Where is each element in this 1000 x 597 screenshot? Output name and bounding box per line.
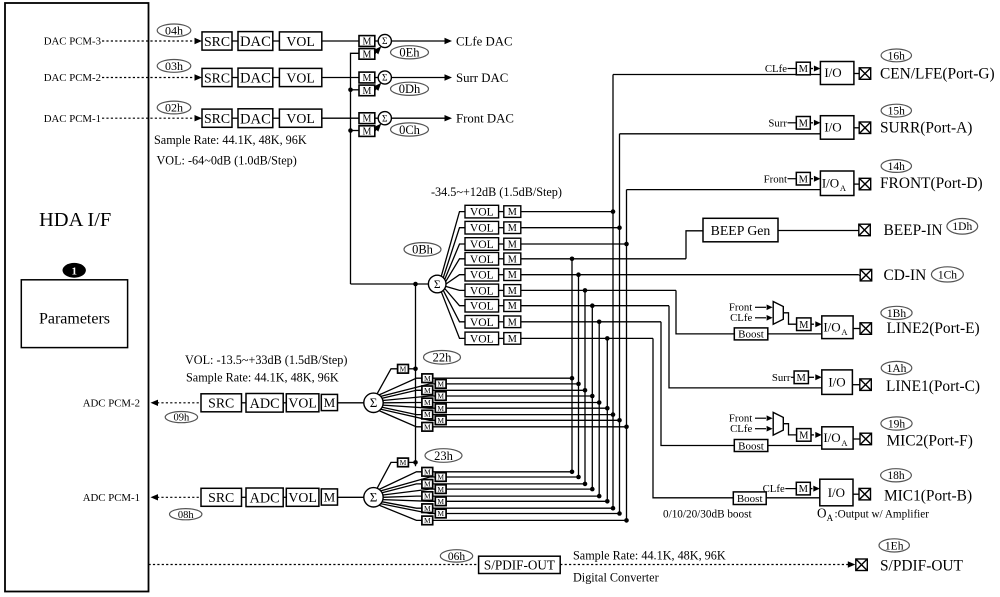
junction dot 22h row6 <box>605 406 610 411</box>
wire fan 23h B8 <box>381 504 436 514</box>
junction dot mixer0B row9 <box>605 336 610 341</box>
svg-text:M: M <box>508 301 517 312</box>
VOL box mixer0B-8 <box>465 316 499 329</box>
mixer input M 22h B4 <box>435 392 446 401</box>
svg-text:Front DAC: Front DAC <box>456 112 514 126</box>
wire 22h row9 to bus <box>433 426 627 428</box>
wire 0Bh bus vertical x415 <box>415 284 417 466</box>
mute M port CEN/LFE <box>796 62 810 75</box>
pin symbol BEEP-IN <box>859 224 871 236</box>
wire front arrow MIC2 <box>755 417 766 419</box>
mute M mixer0B-8 <box>504 316 521 328</box>
mute M upper row3 <box>359 36 375 47</box>
mixer input M 22h A3 <box>422 386 433 395</box>
wire top M to bus 22h <box>408 368 415 370</box>
wire front arrow LINE2 <box>755 306 766 308</box>
svg-text:VOL: VOL <box>470 253 494 266</box>
wire 0Bh output to sum line <box>351 283 430 285</box>
junction dot 23h row5 <box>597 494 602 499</box>
svg-text:M: M <box>424 422 431 431</box>
svg-text:ADC: ADC <box>250 490 280 506</box>
wire stub to lower M row5 <box>351 130 360 132</box>
wire fan top 22h <box>377 369 398 394</box>
svg-text:SRC: SRC <box>204 111 230 126</box>
mute M MIC1 <box>796 482 810 495</box>
svg-text:CEN/LFE(Port-G): CEN/LFE(Port-G) <box>880 66 995 83</box>
mute M mixer0B-4 <box>504 253 521 265</box>
wire VOL to mute row5 <box>322 117 359 119</box>
wire fan 23h A3 <box>382 484 422 493</box>
wire vertical bus Mic2 <box>598 322 600 496</box>
junction dot 22h row9 <box>624 425 629 430</box>
mute M lower row3 <box>359 49 375 60</box>
wire 22h row8 to bus <box>446 419 619 421</box>
svg-text:M: M <box>362 114 371 125</box>
wire dashed ADC PCM-1 arrow <box>151 494 159 500</box>
VOL box mixer0B-5 <box>465 268 499 281</box>
svg-text:16h: 16h <box>888 50 906 62</box>
pin symbol S/PDIF-OUT <box>856 559 868 571</box>
wire 22h row6 to bus <box>446 407 607 409</box>
svg-text:1Eh: 1Eh <box>885 540 904 552</box>
wire fan 22h B4 <box>383 396 435 401</box>
svg-text:M: M <box>437 380 444 389</box>
wire IO to pin SURR <box>854 127 859 129</box>
DAC box 5 <box>238 109 273 128</box>
svg-text:A: A <box>841 327 848 337</box>
pin symbol CD-IN <box>860 269 872 281</box>
wire top M to bus 23h <box>408 461 415 463</box>
node id oval 1Bh <box>881 306 912 319</box>
mixer input M 22h A1 <box>422 374 433 383</box>
svg-text:M: M <box>362 127 371 138</box>
wire 22h row1 to bus <box>433 377 572 379</box>
svg-text:M: M <box>424 467 431 476</box>
svg-text:Sample Rate: 44.1K, 48K, 96K: Sample Rate: 44.1K, 48K, 96K <box>186 371 339 385</box>
wire LINE2 boost feed corner <box>676 290 734 334</box>
svg-text:ADC PCM-2: ADC PCM-2 <box>83 397 140 409</box>
wire mux to M MIC2 <box>783 424 796 435</box>
svg-text:I/O: I/O <box>828 375 845 390</box>
junction dot mixer0B row2 <box>617 225 622 230</box>
svg-text:18h: 18h <box>887 470 905 482</box>
DAC box 3 <box>238 32 273 51</box>
svg-text:Surr: Surr <box>772 372 791 384</box>
wire VOL-M mixer0B-7 <box>499 305 504 307</box>
svg-text:M: M <box>437 416 444 425</box>
svg-text:BEEP Gen: BEEP Gen <box>711 223 771 238</box>
junction dot 23h row1 <box>570 470 575 475</box>
mute M port FRONT <box>796 172 810 185</box>
wire fan 22h B6 <box>383 405 435 408</box>
I O box MIC1 <box>820 479 853 506</box>
I O box FRONT <box>820 171 854 196</box>
mixer input M 23h A3 <box>422 480 433 489</box>
svg-text:SURR(Port-A): SURR(Port-A) <box>880 120 972 137</box>
wire fan 23h A7 <box>382 502 422 508</box>
junction dot 22h row1 <box>570 376 575 381</box>
wire M to sum 23h <box>338 496 364 498</box>
wire DAC-VOL row3 <box>273 40 280 42</box>
wire fan 23h A9 <box>379 505 422 520</box>
wire fan 0Bh input 8 <box>443 290 465 321</box>
wire MIC1 boost feed corner <box>653 338 733 497</box>
node id oval 23h <box>425 449 462 463</box>
svg-text:VOL: VOL <box>470 238 494 251</box>
wire mixer-out vertical x350 <box>351 53 360 284</box>
svg-text:O: O <box>817 506 827 521</box>
wire M to IO FRONT <box>810 178 813 180</box>
numbered marker 1 <box>62 263 85 278</box>
svg-text:BEEP-IN: BEEP-IN <box>884 222 943 239</box>
wire stub to lower M row4 <box>351 89 360 91</box>
junction dot 0Bh bus <box>413 282 418 287</box>
wire fan 23h B2 <box>381 477 436 491</box>
SRC box 22h <box>201 394 242 412</box>
svg-text:03h: 03h <box>165 59 183 73</box>
wire M to sum 22h <box>338 402 364 404</box>
DAC box 4 <box>238 68 273 87</box>
junction dot 23h row9 <box>624 518 629 523</box>
VOL box mixer0B-2 <box>465 221 499 234</box>
wire 22h row2 to bus <box>446 383 578 385</box>
mute M upper row4 <box>359 72 375 83</box>
junction dot mixer0B row3 <box>624 242 629 247</box>
wire VOL-M mixer0B-8 <box>499 321 504 323</box>
wire VOL-M mixer0B-2 <box>499 227 504 229</box>
svg-text:M: M <box>799 320 809 331</box>
svg-text:M: M <box>508 317 517 328</box>
svg-text:DAC PCM-2: DAC PCM-2 <box>44 72 101 84</box>
Parameters box <box>21 280 127 348</box>
wire M to IO CEN/LFE <box>810 68 813 70</box>
I O box CEN/LFE <box>820 62 854 85</box>
mute M mixer0B-2 <box>504 222 521 234</box>
svg-text:M: M <box>797 373 807 384</box>
sum node 0Dh circle <box>378 71 391 84</box>
svg-text:Surr DAC: Surr DAC <box>456 71 508 85</box>
wire 23h row6 to bus <box>446 500 607 502</box>
node id oval 08h <box>170 509 202 520</box>
mute M 22h <box>321 394 337 410</box>
svg-text:1: 1 <box>71 265 77 277</box>
mute M mixer0B-7 <box>504 300 521 312</box>
wire VOL-M mixer0B-4 <box>499 258 504 260</box>
svg-text:1Ah: 1Ah <box>887 363 907 375</box>
svg-text:Sample Rate: 44.1K, 48K, 96K: Sample Rate: 44.1K, 48K, 96K <box>573 549 726 563</box>
wire dashed DAC PCM-3 to SRC <box>102 40 194 42</box>
junction dot bus 23h <box>413 460 418 465</box>
wire 23h row1 to bus <box>433 471 572 473</box>
svg-text:M: M <box>437 485 444 494</box>
node id oval 18h <box>881 469 912 482</box>
svg-text:VOL: VOL <box>470 316 494 329</box>
wire 23h row2 to bus <box>446 476 578 478</box>
wire vertical bus CD <box>578 275 580 477</box>
wire Front port corner <box>627 189 821 191</box>
wire DAC-VOL row5 <box>273 117 280 119</box>
svg-text:M: M <box>362 86 371 97</box>
wire mux to M LINE2 <box>783 313 796 324</box>
junction dot 23h row8 <box>617 511 622 516</box>
Boost box MIC2 <box>734 440 768 452</box>
mixer input M 22h A5 <box>422 398 433 407</box>
wire CD line into pin <box>859 274 860 276</box>
svg-text:VOL: VOL <box>470 284 494 297</box>
I O box SURR <box>820 116 854 140</box>
mute M mixer0B-3 <box>504 238 521 250</box>
wire 23h row8 to bus <box>446 513 619 515</box>
junction dot bus 22h <box>413 367 418 372</box>
wire fan 22h A3 <box>382 390 422 398</box>
svg-text:04h: 04h <box>165 24 183 38</box>
wire fan 23h A1 <box>379 472 422 490</box>
svg-text:A: A <box>841 438 848 448</box>
node id oval 0Eh <box>391 46 429 59</box>
wire fan 0Bh input 9 <box>441 292 465 339</box>
svg-text:M: M <box>424 516 431 525</box>
mute M MIC2 <box>797 429 811 442</box>
VOL box DAC-3 <box>279 32 321 50</box>
svg-text:1Bh: 1Bh <box>887 308 906 320</box>
wire 23h row4 to bus <box>446 488 592 490</box>
svg-text:M: M <box>362 36 371 47</box>
junction dot 22h row7 <box>611 412 616 417</box>
junction dot 22h row5 <box>597 400 602 405</box>
mux selector MIC2 <box>773 412 783 435</box>
svg-text:M: M <box>437 404 444 413</box>
svg-text:M: M <box>799 484 809 495</box>
wire dashed SPDIF right <box>560 564 848 566</box>
node id oval 1Ch <box>931 267 963 282</box>
svg-text:M: M <box>508 207 517 218</box>
mixer input M top 23h <box>398 458 409 467</box>
mixer input M 22h A9 <box>422 423 433 432</box>
wire IO to pin LINE1 <box>852 384 859 386</box>
pin symbol FRONT <box>859 178 871 190</box>
node id oval 19h <box>881 417 912 430</box>
ADC box 22h <box>246 394 283 413</box>
Boost box LINE2 <box>734 328 768 340</box>
mixer input M 22h A7 <box>422 410 433 419</box>
junction dot 23h row3 <box>583 482 588 487</box>
svg-text:M: M <box>799 174 809 185</box>
svg-text:M: M <box>508 334 517 345</box>
mute M mixer0B-1 <box>504 206 521 218</box>
mixer input M 22h B2 <box>435 380 446 389</box>
wire mixer0B input row9 <box>521 337 653 339</box>
svg-text:HDA I/F: HDA I/F <box>39 209 111 231</box>
VOL box mixer0B-3 <box>465 238 499 251</box>
mixer input M 23h A1 <box>422 468 433 477</box>
sum node 0Eh circle <box>378 34 391 47</box>
pin symbol MIC1 <box>859 488 871 500</box>
wire MIC2 boost feed corner <box>661 322 734 446</box>
svg-text:Parameters: Parameters <box>39 311 110 328</box>
wire CLfe port line <box>613 74 820 76</box>
VOL box DAC-5 <box>279 109 321 127</box>
VOL box mixer0B-1 <box>465 205 499 218</box>
mute M mixer0B-6 <box>504 285 521 297</box>
svg-text:SRC: SRC <box>204 70 230 85</box>
svg-text:08h: 08h <box>178 510 195 521</box>
wire 22h row4 to bus <box>446 395 592 397</box>
svg-text:Σ: Σ <box>370 490 378 505</box>
wire M to IO LINE2 <box>811 323 814 325</box>
wire mixer0B input row2 <box>521 227 620 229</box>
mute M LINE1 <box>794 371 808 384</box>
junction dot 23h row7 <box>611 506 616 511</box>
wire clfe arrow MIC2 <box>755 428 766 430</box>
svg-text:I/O: I/O <box>824 65 841 80</box>
wire fan 23h B4 <box>383 489 435 495</box>
SRC box DAC-5 <box>202 109 232 127</box>
sum node 0Bh circle <box>428 275 446 293</box>
mixer input M 23h A9 <box>422 516 433 525</box>
pin symbol LINE2 <box>860 323 872 335</box>
svg-text:09h: 09h <box>174 413 191 424</box>
wire VOL-M mixer0B-9 <box>499 337 504 339</box>
svg-text:22h: 22h <box>433 351 453 365</box>
svg-text:VOL: VOL <box>286 111 314 126</box>
svg-text:M: M <box>424 504 431 513</box>
svg-text:SRC: SRC <box>208 490 234 505</box>
svg-text:0Bh: 0Bh <box>412 243 434 257</box>
pin symbol MIC2 <box>860 433 872 445</box>
svg-text:VOL: VOL <box>288 396 316 411</box>
svg-text:I/O: I/O <box>823 319 840 334</box>
wire lower M into sum row3 <box>375 48 380 54</box>
node id oval 1Ah <box>881 361 912 374</box>
wire fan 0Bh input 2 <box>443 228 465 278</box>
svg-text:15h: 15h <box>888 106 906 118</box>
svg-text:M: M <box>362 73 371 84</box>
svg-text:M: M <box>437 473 444 482</box>
svg-text:Σ: Σ <box>382 114 388 124</box>
svg-text:M: M <box>424 492 431 501</box>
svg-text:DAC PCM-3: DAC PCM-3 <box>44 36 101 48</box>
sum node 23h circle <box>364 488 383 507</box>
node id oval 09h <box>165 412 197 423</box>
junction dot 22h row3 <box>583 388 588 393</box>
svg-text:0/10/20/30dB boost: 0/10/20/30dB boost <box>663 509 752 521</box>
wire SRC-ADC 22h <box>242 402 247 404</box>
wire IO to pin MIC2 <box>853 438 860 440</box>
wire vertical bus CLfe <box>612 75 614 509</box>
mixer input M 23h A5 <box>422 492 433 501</box>
wire vertical bus Mic1 <box>606 338 608 501</box>
wire fan 0Bh input 1 <box>441 212 465 277</box>
mute M port SURR <box>796 117 810 130</box>
wire fan 0Bh input 6 <box>446 286 465 290</box>
junction dot 22h row8 <box>617 418 622 423</box>
svg-text:Σ: Σ <box>382 37 388 47</box>
svg-text:Surr: Surr <box>768 117 787 129</box>
wire VOL-M mixer0B-3 <box>499 243 504 245</box>
junction dot mixer0B row8 <box>597 320 602 325</box>
mixer input M 22h B8 <box>435 416 446 425</box>
wire 22h row5 to bus <box>433 402 600 404</box>
wire fan top 23h <box>377 462 398 488</box>
wire dashed SPDIF left <box>149 564 479 566</box>
junction dot 23h row4 <box>590 487 595 492</box>
wire dashed DAC PCM-1 to SRC <box>102 117 194 119</box>
wire vertical bus Line1 <box>591 306 593 490</box>
wire mixer0B input row6 <box>521 289 676 291</box>
node id oval 16h <box>881 49 911 62</box>
mixer input M 23h B8 <box>435 509 446 518</box>
wire sum output to CLfe DAC <box>391 40 445 42</box>
wire fan 23h A5 <box>383 496 422 497</box>
wire M to IO MIC1 <box>810 488 812 490</box>
VOL box mixer0B-4 <box>465 253 499 266</box>
svg-text:CD-IN: CD-IN <box>884 267 927 284</box>
svg-text:I/O: I/O <box>824 120 841 135</box>
svg-text:Boost: Boost <box>738 329 764 341</box>
wire dashed ADC PCM-2 arrow <box>151 400 159 406</box>
S/PDIF-OUT box <box>479 556 561 573</box>
wire vertical bus Beep <box>571 259 573 472</box>
wire DAC-VOL row4 <box>273 77 280 79</box>
VOL box mixer0B-6 <box>465 284 499 297</box>
junction dot <box>348 128 353 133</box>
junction dot mixer0B row4 <box>570 257 575 262</box>
I O box LINE1 <box>822 370 853 395</box>
svg-text:DAC PCM-1: DAC PCM-1 <box>44 113 101 125</box>
wire lower M into sum row5 <box>375 126 380 132</box>
svg-text:A: A <box>827 513 834 523</box>
svg-text:A: A <box>840 183 847 193</box>
node id oval 0Ch <box>391 123 429 136</box>
wire mixer0B input row5 <box>521 274 859 276</box>
wire upper M to sum row3 <box>375 40 378 42</box>
svg-text:06h: 06h <box>448 551 466 563</box>
svg-text:VOL: VOL <box>470 206 494 219</box>
HDA I/F interface block <box>5 3 149 592</box>
junction dot mixer0B row5 <box>576 272 581 277</box>
svg-text:VOL: VOL <box>470 332 494 345</box>
mute M mixer0B-9 <box>504 333 521 345</box>
svg-text:M: M <box>400 458 407 467</box>
node id oval 02h <box>157 101 191 114</box>
svg-text:M: M <box>424 480 431 489</box>
svg-text:M: M <box>508 223 517 234</box>
svg-text:SRC: SRC <box>204 34 230 49</box>
wire vertical bus Line2 <box>584 290 586 484</box>
svg-text:M: M <box>799 431 809 442</box>
svg-text:M: M <box>324 489 336 504</box>
wire fan 0Bh input 4 <box>446 259 465 282</box>
svg-text:M: M <box>437 509 444 518</box>
wire mixer0B input row8 <box>521 321 661 323</box>
wire 23h row5 to bus <box>433 495 600 497</box>
wire VOL-M mixer0B-6 <box>499 289 504 291</box>
svg-text:VOL: VOL <box>470 269 494 282</box>
svg-text:Σ: Σ <box>434 279 441 291</box>
wire M to IO LINE1 <box>808 376 814 378</box>
mixer input M 23h B6 <box>435 497 446 506</box>
svg-text:VOL: VOL <box>286 70 314 85</box>
svg-text:DAC: DAC <box>240 71 271 87</box>
wire clfe arrow LINE2 <box>755 317 766 319</box>
junction dot mixer0B row7 <box>590 303 595 308</box>
mute M mixer0B-5 <box>504 269 521 281</box>
mixer input M 23h B2 <box>435 473 446 482</box>
wire VOL-M mixer0B-1 <box>499 211 504 213</box>
svg-text:ADC: ADC <box>250 396 280 412</box>
svg-text:ADC PCM-1: ADC PCM-1 <box>83 492 140 504</box>
wire mixer0B input row4 <box>521 258 686 260</box>
